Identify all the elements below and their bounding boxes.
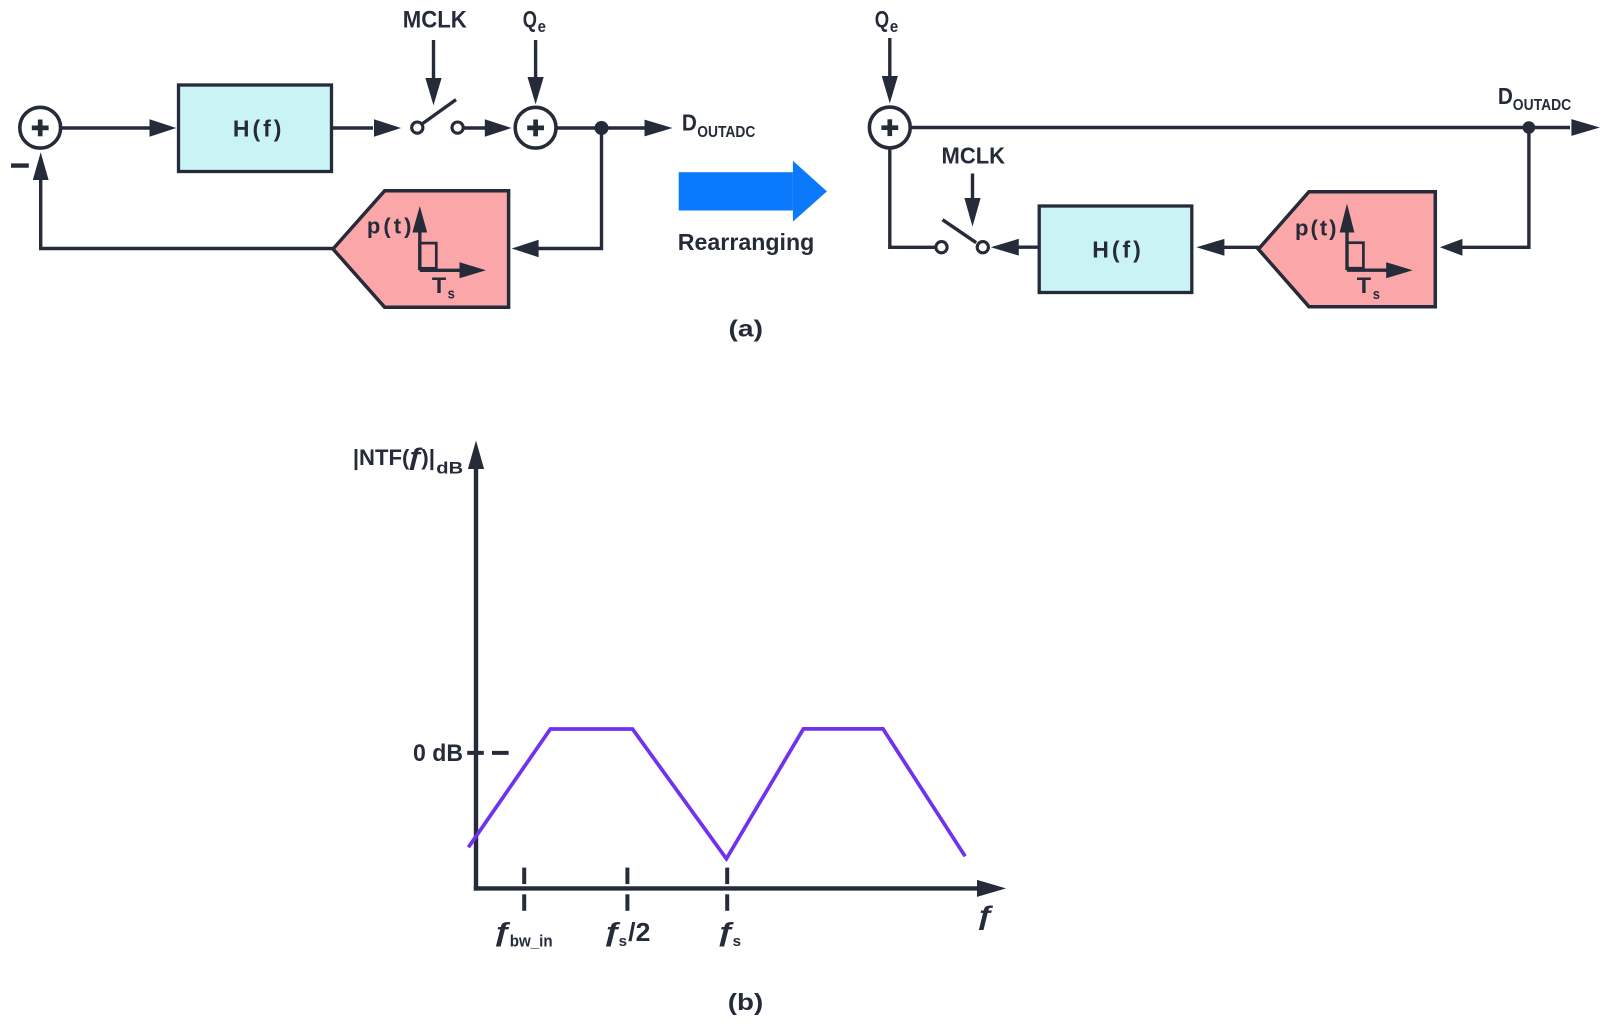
- tick f_bw_in: [522, 868, 526, 911]
- output arrow (left): [645, 120, 673, 137]
- Qe arrow (right): [882, 38, 898, 103]
- svg-text:s: s: [733, 933, 741, 950]
- NTF curve: [468, 729, 965, 859]
- svg-text:MCLK: MCLK: [403, 7, 467, 34]
- feedback wire to S1: [33, 152, 333, 248]
- wire H(f) to switch SW2 (arrow points left): [991, 239, 1039, 256]
- tick f_s/2: [625, 868, 629, 911]
- graph y-axis: [468, 441, 484, 891]
- svg-text:p(t): p(t): [1295, 216, 1337, 241]
- block H(f) left: [179, 85, 332, 172]
- Qe arrow (left): [528, 40, 544, 104]
- pulse mini axes (right): [1340, 204, 1413, 279]
- switch SW2: [936, 220, 989, 253]
- svg-text:(a): (a): [729, 315, 764, 341]
- svg-text:H(f): H(f): [1092, 236, 1141, 262]
- wire S1 to H(f): [61, 119, 177, 136]
- minus sign at S1: [11, 163, 29, 167]
- svg-text:ƒ: ƒ: [975, 902, 994, 930]
- svg-text:(b): (b): [728, 989, 763, 1015]
- wire S3 to output (right, long top wire): [910, 126, 1570, 129]
- wire p(t) to H(f) (arrow points left): [1196, 239, 1259, 256]
- block H(f) right: [1039, 206, 1192, 293]
- MCLK arrow (right): [964, 174, 980, 227]
- svg-text:dB: dB: [436, 460, 463, 478]
- svg-text:MCLK: MCLK: [942, 143, 1006, 169]
- 0 dB tick on y-axis: [467, 751, 484, 755]
- summing node S2: [515, 107, 556, 148]
- summing node S1: [20, 107, 61, 148]
- DAC pulse block p(t) left (pentagon): [333, 191, 509, 307]
- svg-text:s: s: [619, 933, 627, 950]
- wire junction down to p(t) block: [512, 128, 602, 257]
- svg-text:0 dB: 0 dB: [413, 740, 463, 767]
- wire switch to summer S2: [464, 119, 512, 136]
- junction dot (right): [1523, 121, 1536, 134]
- svg-text:)|: )|: [421, 445, 435, 470]
- svg-text:|NTF(: |NTF(: [353, 445, 410, 470]
- MCLK arrow (left): [425, 40, 441, 105]
- DAC pulse block p(t) right (pentagon): [1258, 192, 1435, 307]
- svg-text:bw_in: bw_in: [510, 932, 553, 951]
- svg-text:Rearranging: Rearranging: [678, 229, 815, 255]
- svg-text:H(f): H(f): [233, 116, 282, 142]
- junction dot (left): [595, 121, 609, 135]
- svg-text:ƒ: ƒ: [492, 918, 511, 947]
- pulse mini axes (left): [412, 206, 486, 278]
- summing node S3 (right): [869, 107, 910, 148]
- 0 dB dash: [492, 751, 509, 755]
- graph x-axis: [474, 880, 1006, 897]
- output arrow (right): [1571, 119, 1600, 136]
- tick f_s: [725, 868, 729, 911]
- wire H(f) to switch SW1: [332, 119, 401, 136]
- wire S2 to output: [556, 126, 645, 129]
- svg-text:/2: /2: [628, 917, 650, 947]
- wire S3 down to switch SW2: [890, 148, 936, 248]
- switch SW1: [412, 100, 464, 134]
- wire junction down into p(t) right (arrow points left): [1440, 128, 1529, 256]
- rearranging arrow (blue): [679, 161, 827, 222]
- svg-text:p(t): p(t): [367, 214, 412, 239]
